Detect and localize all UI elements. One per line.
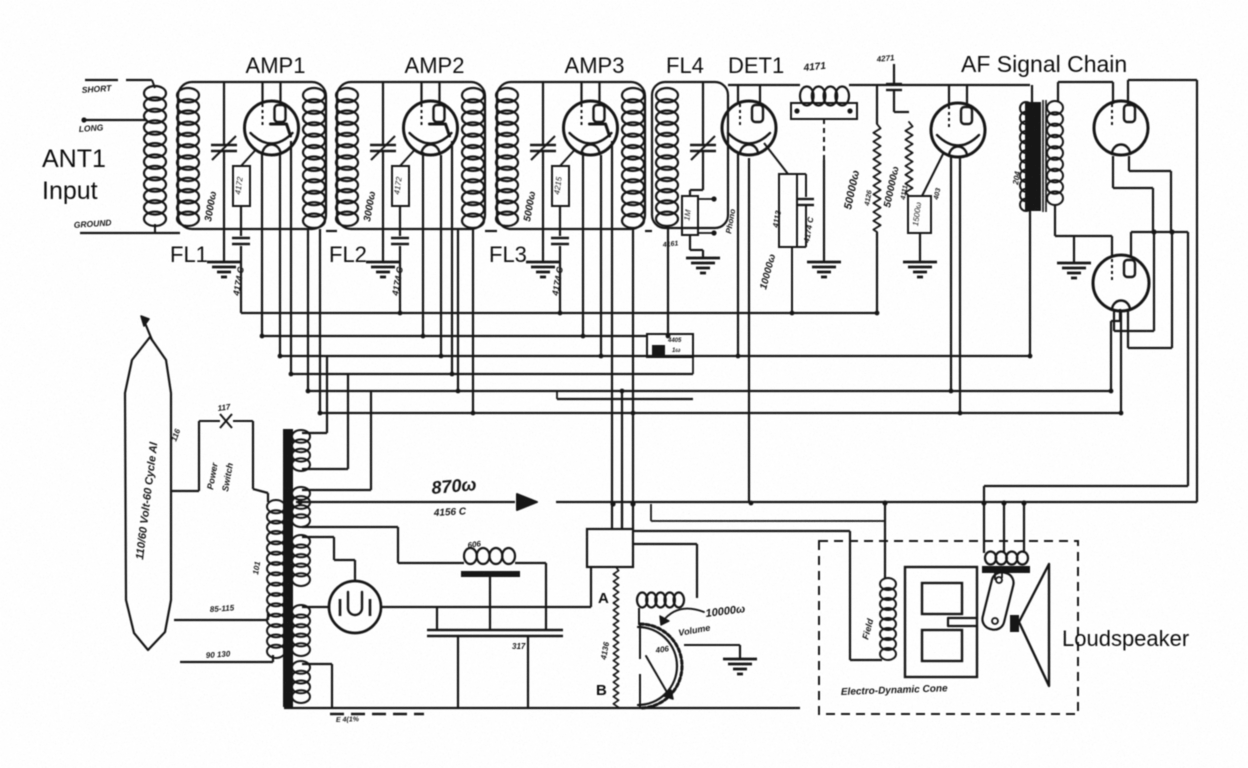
ground below FL1 — [207, 261, 241, 264]
IF transformer FL2 shield box — [337, 82, 485, 229]
node J1 — [1151, 229, 1156, 234]
wire U6 bottom elbow B — [1127, 311, 1129, 348]
wire AMP2 plate top — [438, 82, 440, 106]
wire grid to resistor — [241, 150, 256, 166]
wire field left leg — [849, 531, 851, 660]
wire AMP1 grid top — [261, 82, 263, 103]
magnet E core window 1 — [922, 583, 962, 614]
wire AMP2 plate drop — [451, 141, 453, 374]
wire resistor to cap — [399, 206, 401, 236]
tube U6 AF output — [1093, 255, 1149, 311]
wire DET1 plate to RC — [764, 143, 788, 174]
bus stub y399 — [557, 398, 693, 400]
wire FL4 bottom drop — [667, 229, 669, 336]
pot wiper arrow — [646, 656, 668, 694]
wire varcap to ground — [542, 151, 544, 262]
node junction — [558, 311, 563, 316]
magnet E core slot — [948, 618, 977, 626]
IF transformer FL4 shield box — [652, 82, 728, 228]
node junction — [949, 389, 954, 394]
wire 4405 right leg — [692, 357, 694, 374]
wire rect left — [302, 606, 329, 608]
bus B1 y313 — [241, 312, 877, 314]
wire varcap top lead — [542, 82, 544, 145]
arrowhead 870 — [517, 494, 537, 510]
wire U4 grid top — [948, 85, 950, 104]
wire right outer vertical — [1196, 80, 1198, 502]
node junction — [599, 354, 604, 359]
wire U6 bottom elbow A — [1113, 311, 1115, 331]
capacitor C (4174 C) — [551, 237, 569, 240]
tube AMP1 — [245, 101, 299, 155]
capacitor C (4174 C) — [232, 237, 250, 240]
voice coil armature — [980, 570, 1015, 632]
ground below T2 — [1057, 262, 1091, 265]
coil FL1 secondary — [303, 88, 325, 102]
wire junction row — [1131, 231, 1188, 233]
AC supply banner — [125, 337, 171, 650]
node phono jack bottom — [711, 230, 716, 235]
bus B4 y374 — [291, 373, 693, 375]
wire divider box — [587, 529, 633, 567]
ground below 4171 — [807, 261, 841, 264]
capacitor C filter bank top plates — [427, 629, 563, 631]
node speaker j1 — [981, 500, 986, 505]
wire pot bottom — [639, 704, 641, 708]
tube V8 rectifier — [329, 581, 381, 633]
wire FL2 sec drop B — [472, 229, 474, 413]
capacitor C (4174C) — [805, 174, 807, 197]
transformer T1 secondary 5 — [292, 661, 310, 674]
coil FL2 primary — [336, 88, 358, 102]
wire speaker lead 2 — [1003, 503, 1005, 553]
wire vol coil left — [638, 608, 640, 625]
transformer T1 core — [283, 429, 293, 707]
node junction — [278, 354, 283, 359]
wire choke bar drop — [489, 577, 491, 630]
variable capacitor FL2 tuning — [370, 144, 396, 146]
wire AMP3 grid top — [580, 82, 582, 103]
wire varcap to ground — [382, 151, 384, 262]
wire AMP1 plate top — [279, 82, 281, 106]
resistor R (4113 10000ohm) — [779, 174, 797, 247]
coil FL1 primary — [177, 88, 199, 102]
wire y544 line — [633, 543, 697, 545]
wire bus391 right end — [1110, 321, 1112, 391]
node junction — [736, 354, 741, 359]
ground below FL3 — [526, 261, 560, 264]
wire varcap to 1M — [702, 151, 704, 190]
wire U5 grid entry — [1112, 82, 1114, 104]
wire DET1 grid top — [737, 85, 739, 103]
magnet E core outer — [905, 567, 977, 677]
wire U6 grid entry — [1111, 236, 1113, 256]
wire box link 3 — [645, 230, 652, 232]
volume coil — [637, 593, 647, 608]
node center junctions — [610, 501, 615, 506]
node field junction — [882, 500, 887, 505]
wire switch left leg — [198, 421, 200, 491]
resistor R (4405) box — [647, 334, 693, 357]
wire T2 sec bottom — [1054, 205, 1056, 236]
coil field winding — [880, 578, 896, 590]
wire rect right — [381, 606, 591, 608]
wire FL2 sec drop A — [457, 229, 459, 391]
wire AMP1 cathode drop — [279, 155, 281, 356]
node slider left — [794, 108, 799, 113]
choke L2 (606) — [464, 548, 477, 564]
wire sec3 top tap — [302, 536, 334, 538]
speaker cone apex — [1010, 615, 1019, 632]
resistor R (500000ohm 4111) — [905, 122, 912, 196]
variable capacitor FL1 tuning — [211, 144, 237, 146]
scan noise overlay — [0, 0, 1, 1]
capacitor C (4174 C) — [391, 237, 409, 240]
node junction — [620, 389, 625, 394]
node junction — [421, 334, 426, 339]
wire R 50000 bottom — [876, 232, 878, 313]
wire FL1 sec drop A — [307, 229, 309, 391]
node junction — [581, 334, 586, 339]
wire sec2 top tap — [302, 489, 371, 491]
wire speaker lead 3 — [1023, 503, 1025, 553]
tube U4 first AF — [931, 103, 985, 157]
wire antenna GROUND lead — [80, 232, 180, 234]
transformer T2 AF primary — [1025, 102, 1041, 211]
speaker cone — [1019, 564, 1049, 686]
wire DET1 cathode drop — [737, 152, 739, 356]
resistor R (50000ohm 4126) — [873, 124, 880, 232]
transformer T1 secondary 1 — [292, 430, 310, 443]
transformer T2 core — [1042, 100, 1044, 212]
variable capacitor FL4 — [690, 144, 716, 146]
wire drop J2 — [1171, 232, 1173, 348]
node junction — [260, 334, 265, 339]
wire FL4 varcap top — [702, 82, 704, 145]
wire R 50000 top — [876, 85, 878, 124]
bus B5 y391 — [308, 390, 1111, 392]
wire varcap top lead — [223, 82, 225, 145]
wire AMP1 grid drop — [261, 152, 263, 336]
magnet E core window 2 — [922, 630, 962, 661]
node slider right — [847, 108, 852, 113]
wire drop J1 — [1153, 232, 1155, 331]
wire AMP3 plate drop long — [611, 141, 613, 529]
node junction — [306, 389, 311, 394]
wire FL2 cap drop — [399, 246, 401, 313]
resistor R (4172) — [392, 166, 409, 206]
wire B+ 870 line — [296, 501, 515, 503]
wire sec2 bottom tap — [302, 526, 398, 528]
wire FL3 cap drop — [559, 246, 561, 313]
wire cap lead left — [436, 607, 438, 630]
node junction — [289, 372, 294, 377]
output transformer coil — [985, 552, 996, 565]
wire U4 cathode to bias R — [922, 152, 944, 196]
wire speaker lead 1 — [983, 486, 985, 553]
wire FL3 sec drop long — [632, 229, 634, 529]
wire RC bottom — [779, 246, 806, 248]
wire AMP2 grid drop — [422, 152, 424, 336]
node phono jack top — [711, 196, 716, 201]
transformer T2 secondary — [1047, 101, 1063, 115]
resistor R (1500ohm 403) — [908, 196, 931, 233]
node J2 — [1169, 229, 1174, 234]
wire U5 plate top — [1127, 80, 1129, 106]
transformer T1 secondary 4 — [292, 605, 310, 618]
wire DET1 plate top — [759, 85, 761, 106]
coil FL2 secondary — [462, 88, 484, 102]
wire box left bottom — [590, 567, 592, 607]
wire varcap to ground — [223, 151, 225, 262]
wire 1M to ground — [689, 235, 691, 250]
node junction — [875, 311, 880, 316]
node junction — [749, 501, 754, 506]
wire bottom dashes — [330, 713, 424, 716]
wire varcap top lead — [382, 82, 384, 145]
bus bottom y708 — [284, 707, 800, 709]
resistor R (1M grid leak) — [682, 196, 698, 235]
wire AMP3 grid drop — [582, 152, 584, 336]
wire T2 primary bottom drop — [1029, 211, 1031, 356]
wire resistor to cap — [240, 206, 242, 236]
wire switch right leg — [252, 421, 254, 489]
wire resistor to cap — [559, 206, 561, 236]
wire FL1 cap drop — [240, 246, 242, 313]
wire AMP1 plate drop — [290, 141, 292, 374]
IF transformer FL1 shield box — [178, 82, 326, 229]
wire AMP3 cathode drop — [600, 155, 602, 356]
wire RC top — [779, 173, 806, 175]
node junction — [790, 311, 795, 316]
tube U5 AF driver — [1094, 101, 1148, 155]
wire AMP2 grid top — [420, 82, 422, 103]
node junction — [439, 354, 444, 359]
coil FL4 — [656, 88, 678, 102]
wire U4 drop A — [950, 156, 952, 391]
ground below FL4 — [686, 257, 720, 260]
tube AMP3 — [564, 101, 618, 155]
wire 4171 center tap — [823, 119, 825, 160]
wire pot to ground — [684, 644, 740, 646]
wire top bus y85 — [728, 84, 800, 86]
wire choke right — [515, 562, 546, 564]
loudspeaker dashed enclosure — [819, 541, 1078, 714]
wire U4 drop B — [959, 157, 961, 413]
coil FL3 primary — [496, 88, 518, 102]
bus B2 y336 — [262, 335, 647, 337]
wire U4 plate top — [966, 85, 968, 108]
IF transformer FL3 shield box — [497, 82, 645, 229]
coil L (4171) output choke — [800, 87, 814, 106]
bus B6 y413 — [320, 412, 1121, 414]
wire antenna SHORT lead — [85, 79, 118, 81]
node junction — [456, 389, 461, 394]
wire cap bottom leads — [457, 636, 459, 708]
transformer T1 primary — [267, 500, 285, 513]
node junction — [666, 334, 671, 339]
wire sec1 bottom tap — [302, 468, 348, 470]
wire U5 cathode elbow — [1112, 156, 1114, 188]
node speaker j2 — [1001, 500, 1006, 505]
potentiometer R volume (406) — [640, 624, 682, 708]
wire DET1 drop long — [748, 158, 750, 503]
switch S1 power — [199, 420, 220, 422]
wire right inner vertical — [1187, 232, 1189, 486]
wire T2 sec top — [1057, 82, 1059, 101]
AC supply arrow — [145, 323, 152, 340]
wire center drop — [621, 391, 623, 529]
wire y486 line — [984, 485, 1188, 487]
resistor R (4172) — [233, 166, 250, 206]
wire U5 heater elbow — [1128, 156, 1130, 171]
node B+ junction — [297, 499, 302, 504]
node junction — [398, 311, 403, 316]
node junction — [450, 372, 455, 377]
ground near volume — [723, 658, 757, 661]
node junction — [1028, 354, 1033, 359]
wire choke feed — [398, 562, 464, 564]
wire center triple into box — [621, 504, 623, 529]
wire to U6 grid — [1130, 232, 1132, 256]
transformer T1 secondary 3 — [292, 535, 310, 548]
node junction — [631, 411, 636, 416]
bus B3 y356 — [280, 355, 1030, 357]
ground below FL2 — [366, 261, 400, 264]
coil FL3 secondary — [622, 88, 644, 102]
variable capacitor FL3 tuning — [530, 144, 556, 146]
wire top right bus — [1128, 79, 1197, 81]
wire banner tap 90-130 — [180, 661, 273, 663]
node junction — [1119, 411, 1124, 416]
pot label arrow — [663, 609, 704, 621]
transformer T1 secondary 2 — [292, 487, 310, 500]
ground below 1500 — [903, 261, 937, 264]
wire rect top — [354, 560, 356, 581]
wire voice coil leads — [994, 573, 996, 580]
wire y521 line — [650, 504, 652, 521]
node junction — [958, 411, 963, 416]
resistor R (4215) — [552, 166, 569, 206]
wire 4271 stub — [893, 64, 895, 83]
wire field top leg — [884, 503, 886, 578]
capacitor C (4271) — [886, 83, 902, 85]
wire AMP2 cathode drop — [440, 155, 442, 356]
wire U6 center drop — [1120, 311, 1122, 413]
tube DET1 — [722, 101, 776, 155]
wire banner tap 85-115 — [174, 619, 268, 621]
node junction — [1109, 389, 1114, 394]
wire 4271 to R 4111 — [893, 90, 895, 112]
node junction — [471, 411, 476, 416]
slider bar of 4171 — [791, 103, 857, 119]
wire box link 1 — [326, 230, 337, 232]
resistor R (4136) divider — [613, 567, 618, 708]
wire grid to resistor — [400, 150, 415, 166]
node LONG tap — [81, 117, 86, 122]
wire box link 2 — [485, 230, 497, 232]
tube AMP2 — [404, 101, 458, 155]
wire y531 line — [633, 530, 850, 532]
node speaker j3 — [1021, 500, 1026, 505]
wire AMP3 plate top — [598, 82, 600, 106]
coil L1 antenna primary — [144, 86, 166, 100]
wire antenna LONG lead — [83, 119, 147, 121]
wire sec1 top tap — [302, 432, 327, 434]
wire 1500 to ground — [919, 233, 921, 262]
wire T2 ground tap — [1073, 236, 1075, 263]
node junction — [318, 411, 323, 416]
wire grid to resistor — [560, 150, 575, 166]
wire T2 primary top — [1031, 85, 1033, 102]
wire FL1 sec drop B — [319, 229, 321, 413]
wire sec5 tap — [302, 663, 332, 665]
